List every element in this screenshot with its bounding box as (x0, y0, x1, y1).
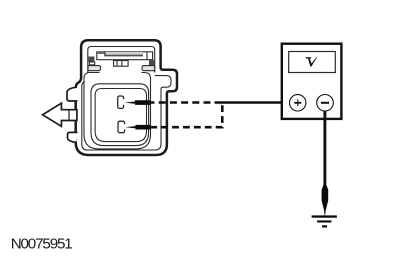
latch teeth (114, 61, 129, 67)
label N0075951 (11, 236, 73, 253)
latch plate gray bar (105, 52, 143, 57)
wire from - terminal to ground (323, 111, 326, 186)
left small notch (89, 62, 94, 65)
latch area white mask (100, 71, 142, 78)
connector face outline (84, 73, 151, 149)
voltmeter V1 case (282, 44, 342, 119)
latch plate side steps (105, 52, 147, 60)
left dark block (88, 57, 94, 63)
pin slot 2 (118, 121, 125, 133)
voltmeter V label (306, 57, 318, 66)
probe pin 2 (125, 125, 150, 130)
right dark block (149, 60, 155, 65)
ground symbol (312, 215, 337, 227)
lower left tab (68, 132, 78, 142)
removal direction arrow (43, 103, 77, 126)
voltmeter display (289, 52, 336, 73)
arrow inner line (68, 110, 70, 121)
probe pin 1 (125, 100, 151, 105)
wire dashed lead from pin 1 (148, 101, 215, 104)
cavity outer wall (91, 84, 149, 146)
terminal + (290, 95, 306, 111)
connector cap inner line (88, 47, 155, 73)
wire dashed lead from pin 2 (148, 105, 223, 127)
connector C1 body outline (76, 40, 177, 155)
svg-text:N0075951: N0075951 (11, 236, 73, 253)
terminal - (317, 95, 334, 112)
wire solid to voltmeter (215, 101, 290, 104)
connector body inner line (82, 76, 171, 150)
upper left tab (67, 87, 78, 101)
ground probe tip (322, 185, 329, 215)
pin slot 1 (118, 96, 124, 108)
cavity inner wall (95, 89, 146, 142)
left latch bar (88, 66, 101, 71)
right latch bar (142, 66, 155, 71)
latch plate dark left bar (97, 52, 104, 54)
latch plate (97, 52, 153, 60)
